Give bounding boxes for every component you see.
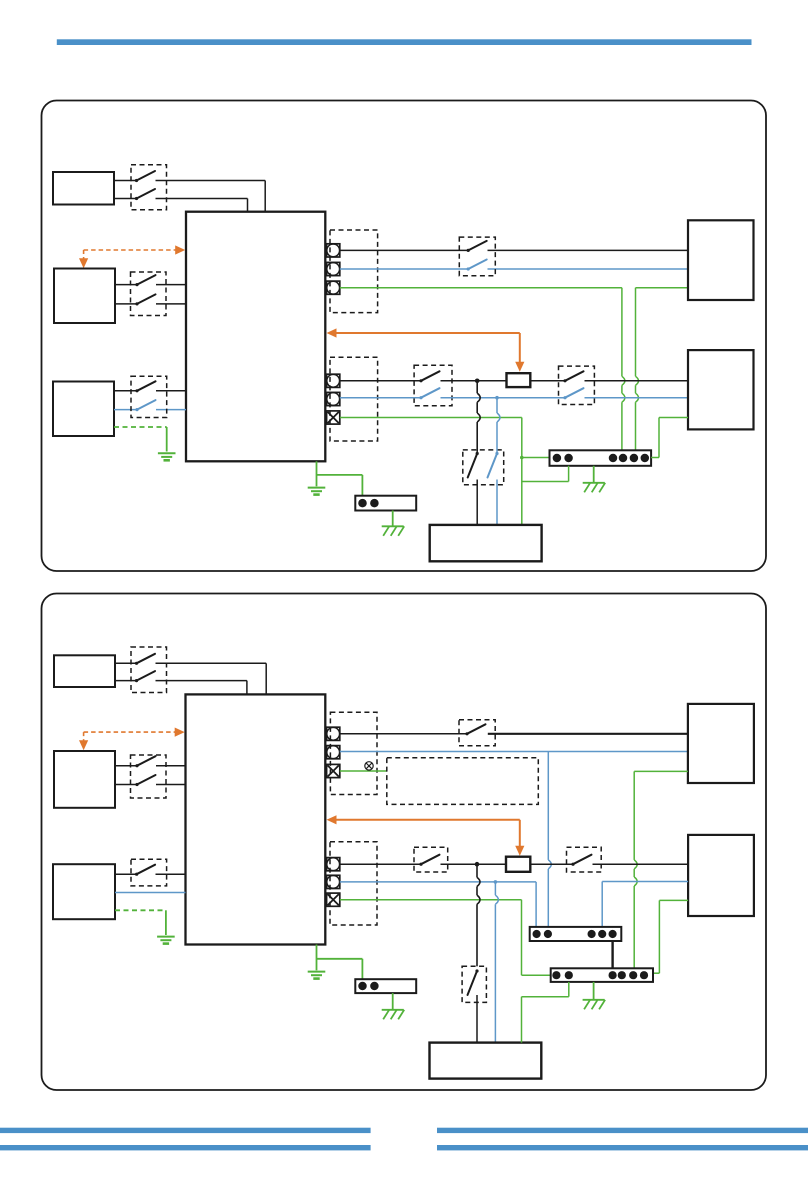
wire grid PE P1: [340, 287, 622, 289]
wire backup N drop P2: [494, 882, 496, 895]
wire gen N P2: [115, 892, 186, 894]
ground generator P2: [157, 936, 175, 938]
terminal load L P2: [327, 858, 340, 871]
wire load PE P1: [340, 417, 522, 419]
breaker generator P2: [131, 859, 167, 886]
busbar ground dots P2: [358, 982, 367, 991]
footer blue line top-right: [437, 1128, 808, 1133]
terminal load N P1: [327, 392, 340, 405]
comms dashed arrow P1: [84, 249, 176, 251]
wire busbar earth stem P1: [593, 466, 595, 483]
wire load L a P2: [340, 863, 421, 865]
busbar ground P1: [355, 496, 416, 511]
wire backup L drop2 P2: [476, 995, 478, 1043]
box loads P2: [688, 835, 754, 916]
meter comms arrow P1: [327, 328, 337, 337]
box battery P1: [54, 269, 115, 324]
ground fork small P2: [382, 1009, 404, 1011]
box generator P1: [53, 382, 114, 437]
breaker grid2 P2: [567, 847, 602, 872]
wire grid PE drop P1: [621, 288, 623, 377]
breaker grid P1: [459, 237, 495, 276]
breaker PV P2: [131, 647, 167, 693]
wire backup N drop2 P1: [496, 480, 498, 525]
wire ground bar stem P2: [392, 993, 394, 1009]
comms dashed arrow P2: [84, 731, 176, 733]
junction load L P1: [475, 379, 480, 384]
box grid P1: [688, 220, 754, 300]
terminal grid N P1: [327, 262, 340, 275]
meter M2: [506, 857, 530, 872]
busbar ground dots P1: [358, 499, 367, 508]
meter M1: [507, 373, 531, 387]
panel 1 border: [42, 101, 767, 572]
wire ground bar stem P1: [392, 511, 394, 526]
wire load N P1: [340, 397, 421, 399]
wire battery- P1: [115, 303, 137, 305]
lamp symbol P2: [365, 762, 373, 770]
terminal box load P2: [330, 842, 377, 925]
wire battery- P2: [115, 784, 137, 786]
wire chassis PE P2: [316, 945, 318, 971]
terminal box grid P1: [330, 230, 378, 313]
busbar PE dots P1: [553, 454, 562, 463]
breaker load P1: [414, 365, 452, 405]
box loads P1: [688, 350, 754, 429]
ground busbar P1: [583, 482, 605, 484]
wire gen L P1: [114, 390, 137, 392]
wire busbar earth stem P2: [593, 982, 595, 999]
wire grid L P1: [340, 249, 468, 251]
terminal box load P1: [330, 357, 378, 441]
wire PV+ drop P2: [265, 663, 267, 695]
breaker generator P1: [131, 376, 167, 417]
box PV array P2: [54, 655, 115, 687]
terminal grid PE P1: [327, 281, 340, 294]
busbar PE dots P2: [552, 971, 560, 979]
terminal grid PE P2: [327, 764, 340, 777]
terminal load L P1: [327, 374, 340, 387]
note dashed box P2: [387, 758, 539, 805]
wire gen N P1: [114, 409, 137, 411]
terminal grid N P2: [327, 746, 340, 759]
box PV array P1: [53, 172, 114, 205]
busbar PE P1: [550, 450, 652, 466]
box battery P2: [54, 751, 115, 808]
breaker battery P1: [131, 272, 167, 316]
wire PV- P1: [114, 198, 137, 200]
wire gen PE dashed P2: [115, 909, 166, 911]
wire gen L P2: [115, 873, 137, 875]
wire grid N drop P2: [547, 752, 549, 860]
header blue bar: [57, 39, 752, 45]
wire load L b P1: [530, 380, 565, 382]
terminal load N P2: [327, 875, 340, 888]
wire load PE drop P2: [521, 900, 523, 976]
wire load PE drop P1: [521, 418, 523, 525]
junction load L P2: [475, 862, 480, 867]
terminal load PE P2: [327, 893, 340, 906]
breaker battery P2: [131, 755, 167, 798]
wire load L a P1: [340, 380, 421, 382]
wire grid N P1: [340, 268, 468, 270]
wire PV- drop P1: [247, 199, 249, 213]
wire PV- P2: [115, 680, 137, 682]
inverter U1: [186, 212, 325, 462]
busbar ground P2: [355, 979, 416, 993]
junction load N P2: [494, 880, 498, 884]
meter comms arrow P2: [327, 815, 337, 824]
box grid P2: [688, 704, 754, 783]
terminal box grid P2: [330, 712, 377, 794]
wire backup N drop P1: [496, 398, 498, 413]
terminal load PE P1: [327, 411, 340, 424]
panel 2 border: [42, 594, 767, 1091]
ground fork small P1: [382, 525, 404, 527]
wire N-PE bond P2: [611, 941, 613, 968]
terminal grid L P2: [327, 727, 340, 740]
junction load N P1: [495, 396, 499, 400]
ground chassis P1: [308, 487, 326, 489]
wire load L b P2: [530, 863, 573, 865]
wire PV+ drop P1: [264, 181, 266, 213]
box generator P2: [53, 864, 115, 919]
busbar N P2: [530, 927, 622, 941]
wire chassis PE P1: [316, 461, 318, 486]
breaker PV P1: [131, 165, 167, 210]
footer blue line bottom-left: [0, 1145, 371, 1150]
breaker grid2 P1: [559, 366, 595, 404]
ground generator P1: [158, 452, 176, 454]
wire backup L drop P2: [476, 864, 478, 877]
wire loads PE P1: [659, 417, 688, 419]
wire PE stub P2: [340, 770, 387, 772]
wire load PE P2: [340, 899, 522, 901]
wire busbar to backup P2: [568, 982, 570, 997]
wire busbar to backup P1: [568, 466, 570, 482]
breaker backup P2: [462, 966, 486, 1002]
ground chassis P2: [308, 971, 326, 973]
breaker grid P2: [459, 720, 495, 746]
wire PE to bar P1: [522, 457, 550, 459]
wire grid N P2: [340, 751, 688, 753]
wire load N a P2: [340, 881, 536, 883]
busbar PE P2: [551, 968, 653, 982]
wire battery+ P2: [115, 765, 137, 767]
breaker load P2: [414, 847, 448, 872]
ground busbar P2: [583, 999, 605, 1001]
wire loads PE P2: [659, 899, 688, 901]
inverter U2: [186, 694, 326, 944]
wire load N b P2: [601, 882, 603, 942]
wire grid PE drop P2: [633, 771, 635, 860]
breaker backup P1: [463, 450, 504, 485]
busbar N dots P2: [533, 930, 541, 938]
box backup loads P1: [430, 525, 542, 561]
terminal grid L P1: [327, 244, 340, 257]
wire PV+ P2: [115, 662, 137, 664]
wire grid PE P2: [634, 770, 688, 772]
wire backup L drop2 P1: [476, 480, 478, 525]
wire grid-box PE P1: [636, 287, 689, 289]
wire gen PE dashed P1: [114, 426, 167, 428]
wire battery+ P1: [115, 284, 137, 286]
footer blue line bottom-right: [437, 1145, 808, 1150]
wire backup L drop P1: [476, 381, 478, 393]
wire grid L P2: [340, 733, 467, 735]
footer blue line top-left: [0, 1128, 371, 1133]
wire PV+ P1: [114, 180, 137, 182]
wire PV- drop P2: [246, 681, 248, 696]
box backup loads P2: [430, 1043, 542, 1079]
